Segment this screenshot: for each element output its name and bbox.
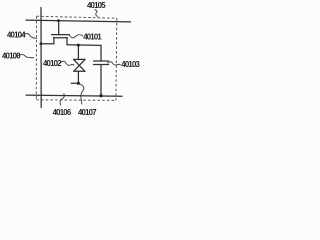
svg-text:40100: 40100 [2, 52, 21, 61]
svg-text:40106: 40106 [53, 108, 72, 117]
svg-text:40107: 40107 [78, 108, 96, 117]
svg-text:40104: 40104 [7, 30, 26, 39]
svg-text:40101: 40101 [83, 32, 102, 41]
svg-text:40102: 40102 [43, 59, 62, 68]
svg-text:40105: 40105 [87, 1, 106, 10]
svg-text:40103: 40103 [121, 60, 140, 69]
